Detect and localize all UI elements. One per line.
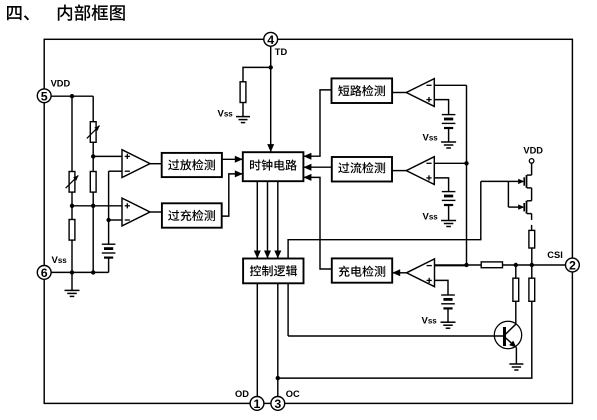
pin 1 OD [250, 397, 264, 411]
junction dot TD [269, 65, 273, 69]
ground at TD resistor [236, 116, 250, 118]
svg-text:Vss: Vss [423, 212, 439, 223]
block 控制逻辑 control logic [243, 259, 303, 284]
wire R7 to Q1 collector [515, 301, 517, 324]
wire gate-drive horizontal [481, 180, 509, 182]
U4 plus mark [426, 177, 431, 179]
block 时钟电路 clock circuit [243, 152, 304, 181]
wire CSI sense vertical [466, 85, 468, 265]
wire node B/C to comparator U2 + [72, 205, 122, 207]
wire U2 output [150, 211, 162, 213]
wire Q1 base [288, 335, 503, 337]
svg-text:3: 3 [274, 397, 281, 411]
wire gate tie [507, 181, 509, 207]
wire U4 - input to CSI net [434, 162, 466, 164]
svg-text:5: 5 [41, 89, 48, 103]
block 过充检测 over-charge detect [162, 203, 222, 227]
wire control to OC pin3 [277, 283, 279, 396]
wire M1 source to M2 drain [531, 188, 533, 201]
transistor M1 PMOS [527, 174, 532, 176]
wire 短路检测 to clock + arrowhead [303, 90, 331, 156]
transistor Q1 NPN [494, 321, 521, 348]
wire reference vertical [108, 171, 110, 244]
resistor R5 [529, 230, 535, 248]
U5 minus mark [427, 265, 432, 267]
ground at B4 [441, 321, 456, 323]
pin 5 VDD [37, 89, 51, 103]
wire Q1 emitter to ground [515, 348, 517, 364]
wire CSI line left [435, 264, 482, 266]
junction dot VDD rail [70, 94, 74, 98]
title text 四、内部框图 [7, 6, 29, 20]
junction dot ref [106, 218, 110, 222]
U2 minus mark [125, 219, 130, 221]
wire TD pin4 down to clock + arrowhead [270, 45, 272, 153]
U1 minus mark [125, 170, 130, 172]
wire B4 to ground [447, 308, 449, 321]
ground at Vss rail [71, 272, 73, 290]
wire CSI to resistor R7 [515, 265, 517, 278]
wire U1 output [150, 163, 162, 165]
op-amp U4 [406, 157, 434, 185]
junction dot U4 input [464, 161, 468, 165]
wire VDD to M1 drain [531, 163, 533, 175]
wire R4 to Vss rail [71, 240, 73, 272]
wire B2 to ground [448, 128, 450, 142]
junction dot node B [70, 204, 74, 208]
junction dot node A [91, 154, 95, 158]
wire control to Q1 base vertical [287, 283, 289, 336]
op-amp U3 [406, 79, 434, 107]
wire CSI to resistor R8 [531, 265, 533, 278]
wire clock out1 + arrowhead [256, 181, 258, 258]
U5 arrowed output into 充电检测 [392, 272, 406, 274]
wire control to OD pin1 [256, 283, 258, 396]
variable resistor VR3 [69, 172, 75, 193]
svg-text:Vss: Vss [422, 316, 438, 327]
wire 过充检测 to clock + arrowhead [222, 174, 243, 216]
svg-text:OC: OC [286, 389, 300, 399]
junction dot Vss rail left [70, 270, 74, 274]
resistor R6 in CSI line [481, 262, 502, 268]
wire B3 to ground [448, 205, 450, 220]
wire R8 down to OC net [278, 301, 532, 378]
wire clock out3 + arrowhead [277, 181, 279, 258]
wire clock out2 + arrowhead [267, 181, 269, 258]
wire TD to resistor [243, 67, 271, 81]
junction dot CSI-R5 [530, 263, 534, 267]
svg-text:6: 6 [41, 266, 48, 280]
junction dot CSI-R7 [514, 263, 518, 267]
battery reference B1 [102, 243, 116, 245]
wire 充电检测 to clock + arrowhead [303, 177, 331, 269]
wire 短路检测 to comparator U3 [392, 92, 407, 94]
variable resistor VR1 [90, 122, 96, 143]
svg-text:VDD: VDD [51, 79, 71, 89]
wire R-TD to ground [242, 103, 244, 117]
U4 minus mark [426, 162, 431, 164]
resistor R4 [69, 220, 75, 241]
op-amp U5 [407, 259, 435, 287]
wire 过流检测 to clock + arrowhead [303, 166, 331, 168]
svg-text:Vss: Vss [218, 108, 234, 119]
wire U2 - input [109, 219, 122, 221]
U3 plus mark [426, 99, 431, 101]
pin 2 CSI [566, 258, 580, 272]
wire U5 + input to battery B4 [435, 280, 449, 294]
U2 plus mark [125, 205, 130, 207]
battery reference B4 [441, 294, 455, 296]
block 过流检测 over-current detect [332, 157, 392, 182]
svg-text:1: 1 [254, 397, 261, 411]
op-amp U1 [122, 150, 150, 178]
block 短路检测 short-circuit detect [332, 78, 393, 103]
wire battery B1 to Vss rail [108, 258, 110, 273]
svg-text:TD: TD [275, 47, 288, 57]
pin 4 TD [264, 32, 278, 46]
wire 过流检测 to comparator U4 [392, 170, 407, 172]
resistor R7 [513, 278, 519, 301]
wire divider branch A top [92, 96, 94, 122]
wire U4 + input to battery B3 [434, 178, 448, 191]
wire R2 to Vss rail [92, 192, 94, 272]
transistor M2 PMOS [527, 200, 532, 202]
resistor R-TD [240, 82, 246, 103]
U1 plus mark [125, 155, 130, 157]
svg-text:CSI: CSI [547, 250, 563, 260]
wire VR1 to node A [92, 142, 94, 171]
wire U3 - input to CSI net [434, 84, 466, 86]
wire VR3 to node [71, 192, 73, 219]
svg-text:Vss: Vss [52, 255, 68, 266]
ground at B3 [441, 220, 456, 222]
wire U5 - input to CSI junction [435, 265, 467, 267]
block 充电检测 charge detect [332, 258, 392, 282]
resistor R2 [90, 172, 96, 193]
svg-text:VDD: VDD [523, 146, 543, 156]
wire 过放检测 to clock + arrowhead [222, 158, 243, 160]
wire CSI line right [503, 264, 566, 266]
op-amp U2 [122, 198, 150, 226]
junction dot Vss rail right [91, 270, 95, 274]
ground at B2 [441, 141, 456, 143]
wire U1 - input [109, 170, 122, 172]
battery reference B2 [442, 114, 456, 116]
wire U3 + input to battery B2 [434, 100, 448, 114]
svg-text:4: 4 [267, 33, 274, 47]
junction dot node C [91, 204, 95, 208]
junction dot OC net [276, 376, 280, 380]
wire to sense resistor R5 [531, 225, 533, 231]
outer boundary frame [44, 39, 572, 403]
pin 6 Vss [37, 266, 51, 280]
svg-text:2: 2 [569, 259, 576, 273]
junction dot CSI sense [464, 263, 468, 267]
wire R5 to CSI line [531, 248, 533, 265]
wire node A to comparator U1 + [93, 155, 122, 157]
svg-text:OD: OD [235, 389, 249, 399]
resistor R8 [529, 278, 535, 301]
pin 3 OC [271, 397, 285, 411]
wire VDD pin5 to divider top [44, 95, 93, 97]
svg-text:Vss: Vss [423, 133, 439, 144]
VDD open terminal [529, 159, 534, 164]
wire divider branch B top [71, 96, 73, 171]
battery reference B3 [442, 191, 456, 193]
block 过放检测 over-discharge detect [162, 153, 222, 177]
wire Vss rail [44, 271, 108, 273]
ground at Q1 emitter [509, 363, 523, 365]
U5 plus mark [427, 279, 432, 281]
U3 minus mark [426, 84, 431, 86]
wire gate-drive net upper [288, 181, 481, 258]
wire M2 source stub [531, 214, 533, 220]
